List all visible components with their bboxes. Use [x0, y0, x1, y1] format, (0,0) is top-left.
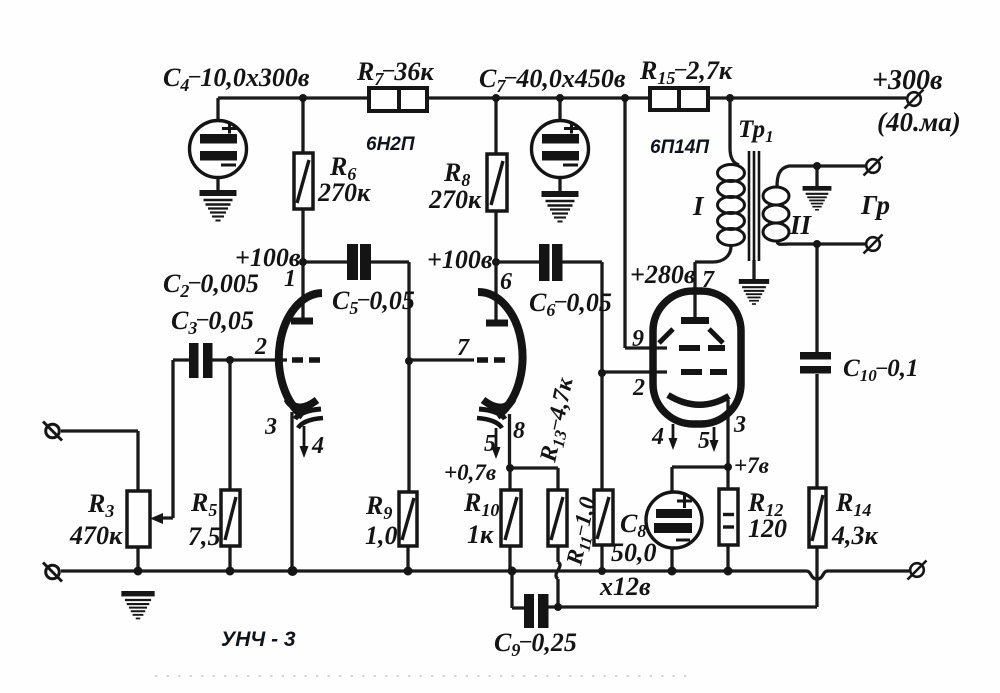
svg-text:Тр1: Тр1: [738, 116, 774, 146]
svg-text:7: 7: [457, 335, 470, 361]
svg-text:C7–40,0х450в: C7–40,0х450в: [479, 63, 626, 96]
svg-text:+280в: +280в: [630, 260, 696, 289]
svg-text:6П14П: 6П14П: [650, 137, 709, 158]
svg-text:+0,7в: +0,7в: [444, 460, 496, 485]
svg-text:R9: R9: [365, 491, 392, 523]
svg-text:270к: 270к: [428, 185, 482, 214]
svg-text:1к: 1к: [467, 520, 494, 549]
svg-text:5: 5: [698, 428, 710, 454]
svg-text:C9–0,25: C9–0,25: [494, 627, 577, 660]
svg-text:3: 3: [733, 412, 746, 438]
svg-text:R3: R3: [87, 489, 114, 521]
svg-text:C4–10,0х300в: C4–10,0х300в: [163, 62, 310, 95]
svg-text:R10: R10: [463, 488, 499, 520]
svg-text:R15–2,7к: R15–2,7к: [639, 55, 733, 88]
svg-text:C2–0,005: C2–0,005: [163, 268, 259, 301]
svg-text:R5: R5: [190, 488, 217, 520]
svg-text:II: II: [789, 210, 813, 240]
svg-text:2: 2: [254, 334, 267, 360]
svg-text:50,0: 50,0: [611, 538, 657, 567]
svg-text:Гр: Гр: [860, 190, 890, 220]
svg-text:х12в: х12в: [599, 572, 651, 601]
svg-text:6: 6: [500, 269, 512, 295]
svg-text:+300в: +300в: [872, 65, 943, 96]
svg-text:6Н2П: 6Н2П: [366, 134, 415, 155]
svg-text:120: 120: [748, 514, 787, 543]
svg-text:R14: R14: [835, 488, 871, 520]
svg-text:R13–4,7к: R13–4,7к: [535, 375, 581, 466]
svg-text:4,3к: 4,3к: [831, 521, 879, 550]
svg-text:4: 4: [651, 424, 664, 450]
svg-text:C8: C8: [620, 509, 646, 541]
svg-text:9: 9: [632, 326, 644, 352]
svg-text:(40.ма): (40.ма): [877, 107, 961, 137]
svg-text:270к: 270к: [317, 178, 371, 207]
svg-text:8: 8: [513, 418, 525, 444]
svg-text:C6–0,05: C6–0,05: [529, 287, 612, 320]
svg-text:УНЧ - 3: УНЧ - 3: [221, 628, 296, 651]
svg-text:7: 7: [702, 267, 715, 293]
svg-text:3: 3: [264, 414, 277, 440]
svg-text:+7в: +7в: [734, 453, 769, 478]
svg-text:C5–0,05: C5–0,05: [332, 285, 415, 318]
svg-text:2: 2: [632, 375, 645, 401]
svg-text:5: 5: [484, 431, 496, 457]
svg-text:+100в: +100в: [427, 245, 493, 274]
svg-text:470к: 470к: [69, 521, 123, 550]
svg-text:7,5: 7,5: [188, 522, 221, 551]
svg-text:4: 4: [311, 433, 324, 459]
svg-text:R7–36к: R7–36к: [356, 56, 434, 89]
svg-text:1: 1: [284, 266, 296, 292]
svg-text:I: I: [692, 191, 705, 221]
svg-text:1,0: 1,0: [365, 521, 398, 550]
svg-text:C10–0,1: C10–0,1: [843, 354, 918, 385]
svg-text:C3–0,05: C3–0,05: [171, 305, 254, 338]
